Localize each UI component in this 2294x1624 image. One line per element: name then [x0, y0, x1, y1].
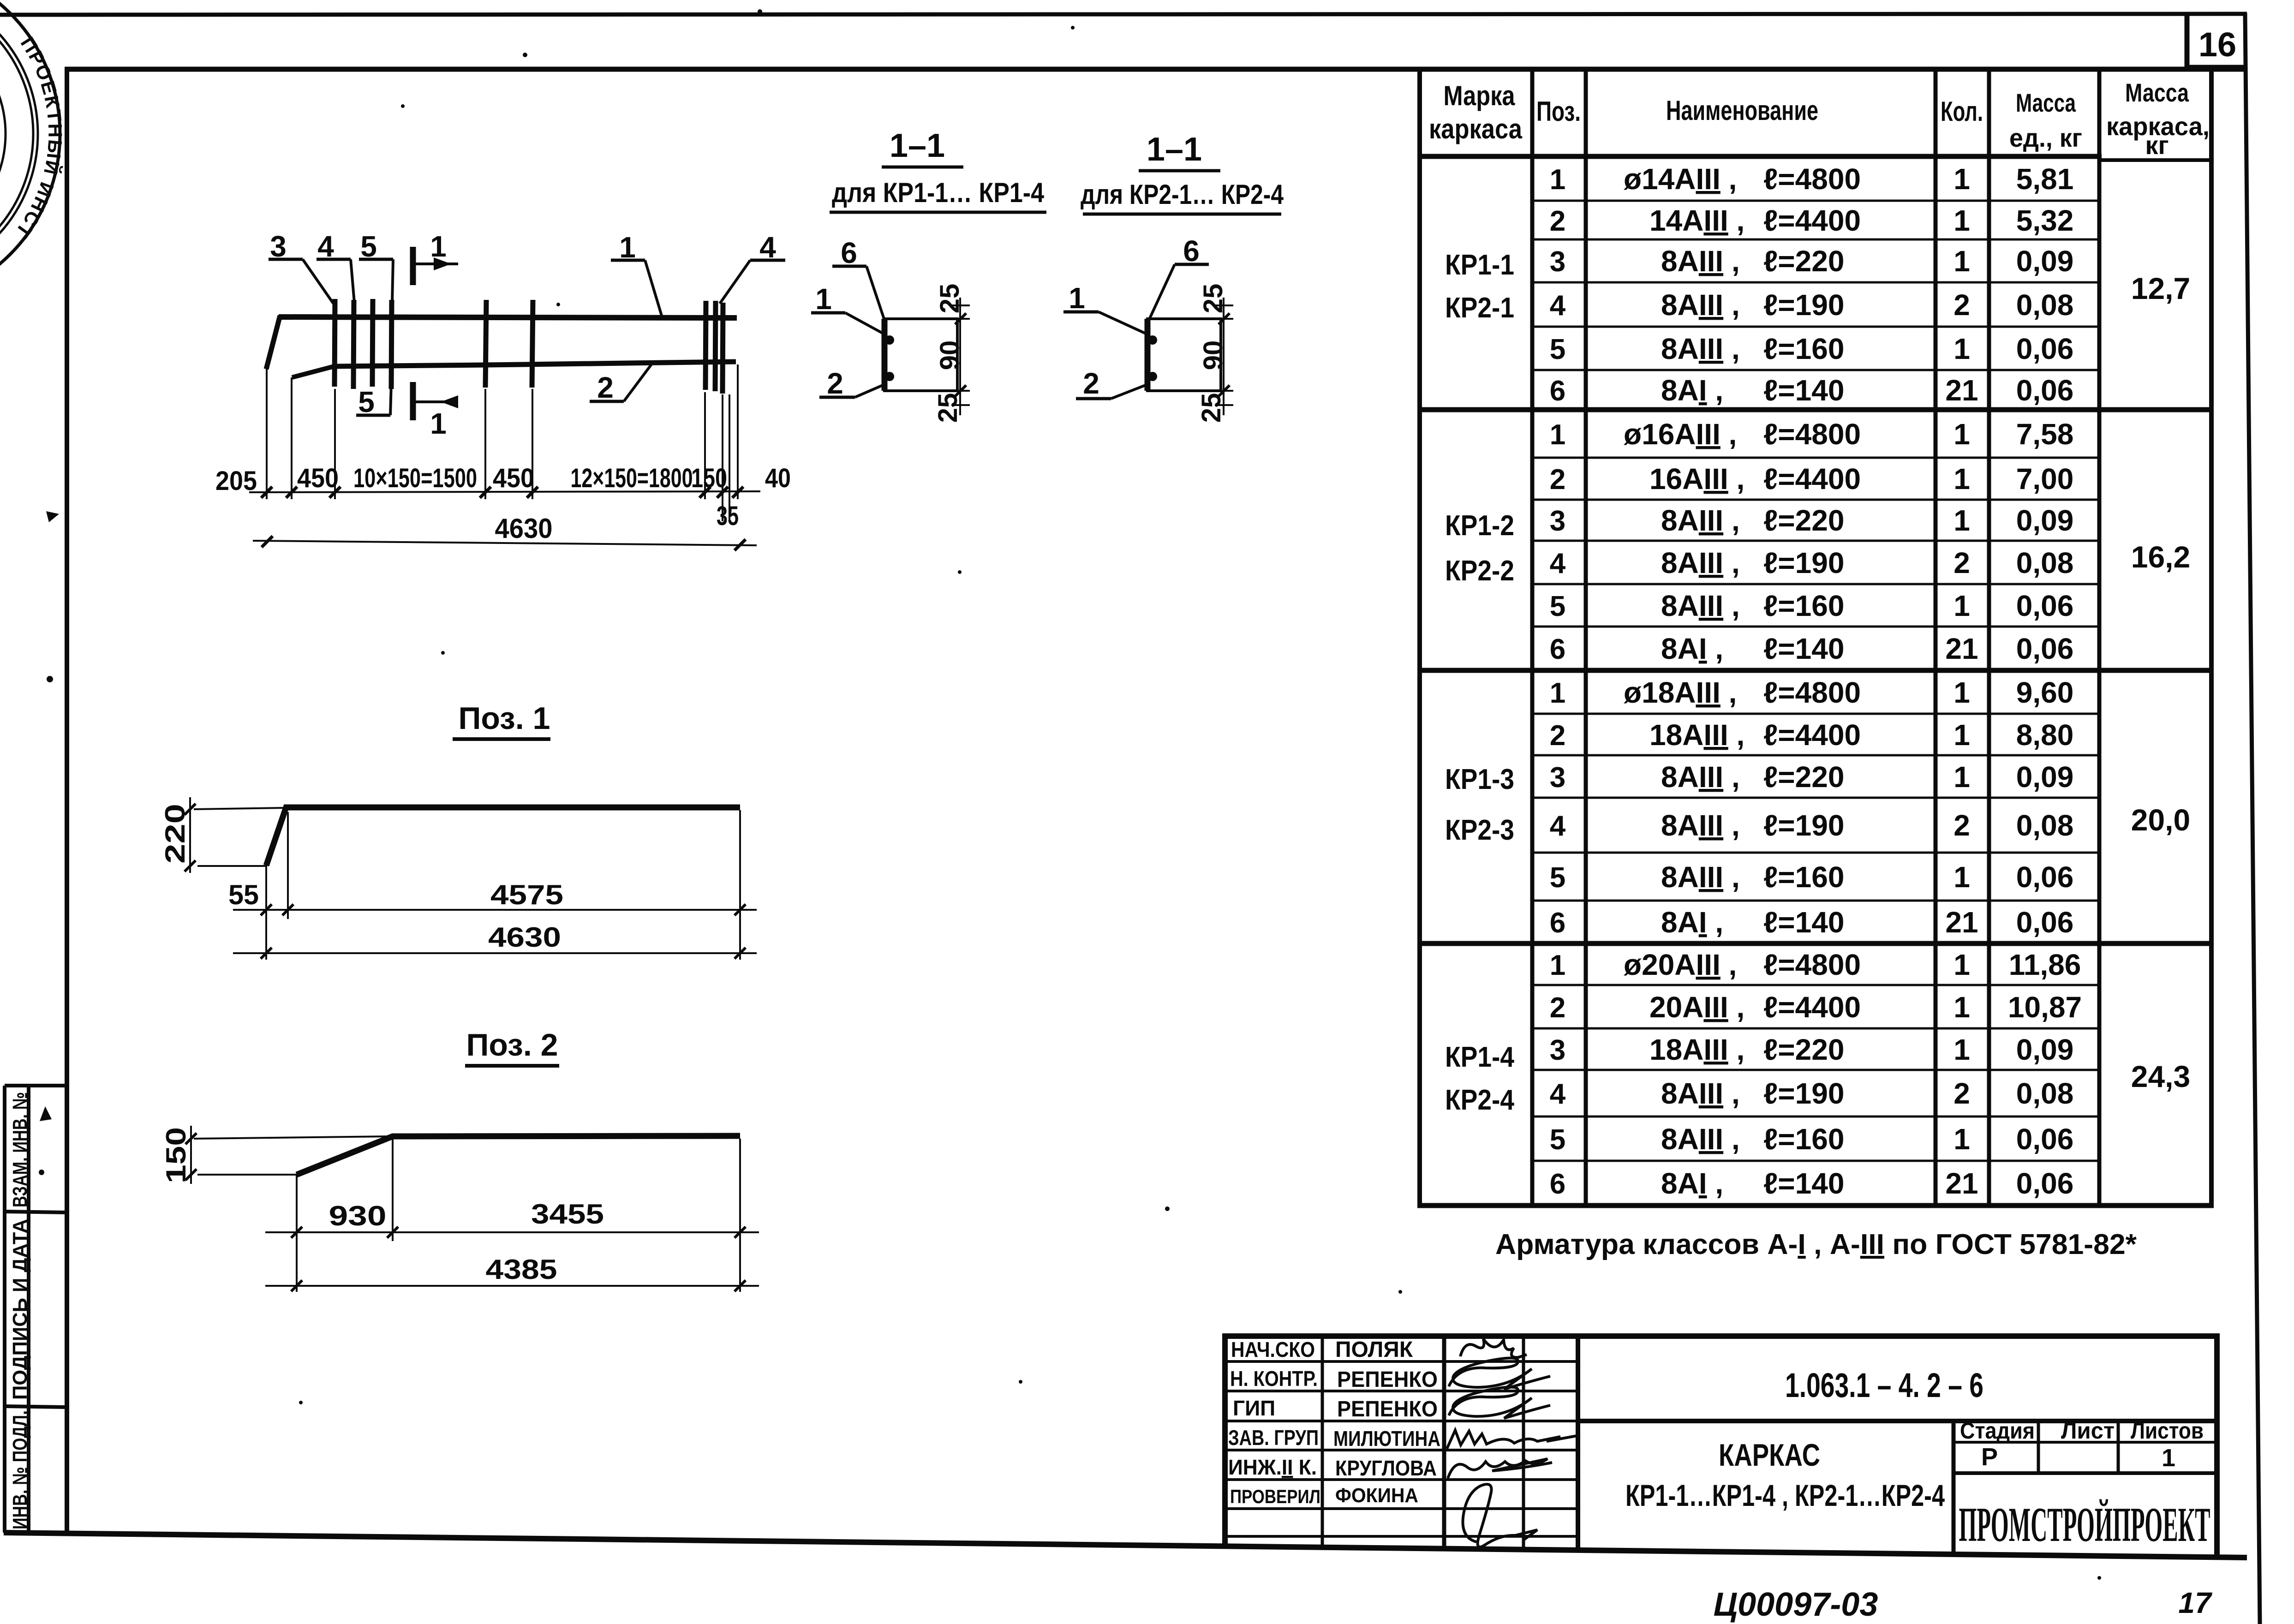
- leader label 2: [590, 363, 652, 404]
- svg-text:Ц00097-03: Ц00097-03: [1714, 1586, 1878, 1623]
- section title 1-1 left: [882, 127, 963, 167]
- svg-text:1: 1: [1953, 504, 1970, 537]
- svg-text:КР1-1…КР1-4 , КР2-1…КР2-4: КР1-1…КР1-4 , КР2-1…КР2-4: [1625, 1478, 1945, 1512]
- svg-text:ФОКИНА: ФОКИНА: [1335, 1484, 1418, 1507]
- signature scribble Репенко 1: [1449, 1358, 1550, 1389]
- section subtitle for KP1-1...KP1-4: [830, 177, 1046, 212]
- svg-text:0,06: 0,06: [2016, 589, 2074, 622]
- svg-text:0,06: 0,06: [2016, 906, 2074, 939]
- svg-text:ℓ=190: ℓ=190: [1763, 546, 1844, 579]
- svg-text:1.063.1 – 4. 2 – 6: 1.063.1 – 4. 2 – 6: [1785, 1366, 1983, 1404]
- title block outline: [1225, 1333, 2217, 1558]
- svg-text:450: 450: [297, 463, 339, 493]
- svg-text:12,7: 12,7: [2131, 271, 2190, 305]
- svg-text:8АIII ,: 8АIII ,: [1661, 245, 1740, 278]
- svg-text:0,06: 0,06: [2016, 860, 2074, 894]
- svg-text:1: 1: [1550, 949, 1565, 981]
- pos.2 dim line 4385: [265, 1285, 759, 1287]
- svg-text:ПРОВЕРИЛ: ПРОВЕРИЛ: [1230, 1486, 1320, 1507]
- svg-text:4630: 4630: [488, 922, 561, 953]
- svg-text:КАРКАС: КАРКАС: [1719, 1438, 1820, 1473]
- svg-text:205: 205: [215, 466, 257, 496]
- svg-text:Поз.: Поз.: [1536, 96, 1581, 127]
- pos.1 dim line 4630: [233, 952, 757, 954]
- svg-text:0,06: 0,06: [2016, 332, 2074, 365]
- svg-text:Поз. 1: Поз. 1: [459, 701, 550, 736]
- svg-text:17: 17: [2178, 1586, 2213, 1619]
- stirrup ticks middle: [485, 300, 533, 388]
- svg-text:25: 25: [1198, 284, 1228, 314]
- section KP1 dimension chain: [951, 298, 970, 415]
- svg-text:Марка: Марка: [1444, 80, 1516, 111]
- svg-text:ø18АIII ,: ø18АIII ,: [1624, 676, 1737, 709]
- svg-text:Кол.: Кол.: [1941, 96, 1983, 127]
- svg-text:2: 2: [1083, 367, 1099, 400]
- svg-text:4: 4: [1550, 548, 1566, 579]
- svg-text:1: 1: [1953, 332, 1970, 365]
- svg-text:4630: 4630: [495, 513, 553, 544]
- leader label 5 upper: [359, 230, 393, 302]
- svg-text:ед., кг: ед., кг: [2009, 123, 2082, 152]
- svg-text:1: 1: [430, 230, 447, 263]
- svg-text:21: 21: [1945, 906, 1978, 939]
- svg-text:8АIII ,: 8АIII ,: [1661, 760, 1740, 794]
- svg-text:ℓ=4400: ℓ=4400: [1763, 718, 1861, 752]
- svg-text:8АIII ,: 8АIII ,: [1661, 546, 1740, 579]
- svg-text:0,06: 0,06: [2016, 1167, 2074, 1200]
- section KP2 dimension chain: [1215, 298, 1233, 415]
- left stamp strip boxes: [5, 1086, 67, 1533]
- table row lines: [1532, 201, 2099, 1161]
- svg-text:КР2-4: КР2-4: [1445, 1084, 1514, 1116]
- svg-text:5: 5: [1550, 862, 1565, 894]
- svg-text:1: 1: [1953, 1122, 1970, 1156]
- pos.1 extension left bottom: [197, 865, 267, 867]
- svg-text:МИЛЮТИНА: МИЛЮТИНА: [1333, 1427, 1440, 1451]
- svg-text:ℓ=160: ℓ=160: [1763, 1122, 1844, 1156]
- svg-text:8,80: 8,80: [2016, 718, 2074, 752]
- bar 2 bottom chord: [335, 362, 736, 366]
- section box KP2 (stirrup outline): [1147, 319, 1221, 391]
- svg-text:1–1: 1–1: [890, 127, 945, 164]
- svg-text:2: 2: [1953, 288, 1970, 322]
- leader 6 left section: [832, 236, 884, 320]
- svg-text:ЗАВ. ГРУП: ЗАВ. ГРУП: [1228, 1426, 1319, 1450]
- svg-text:24,3: 24,3: [2131, 1059, 2190, 1093]
- section mark 1 upper: [413, 230, 458, 285]
- svg-text:11,86: 11,86: [2009, 948, 2081, 981]
- svg-text:5: 5: [358, 385, 375, 418]
- svg-text:12×150=1800: 12×150=1800: [571, 463, 693, 493]
- svg-text:8АIII ,: 8АIII ,: [1661, 1122, 1740, 1156]
- svg-text:РЕПЕНКО: РЕПЕНКО: [1337, 1397, 1438, 1421]
- svg-text:ø14АIII ,: ø14АIII ,: [1624, 162, 1737, 196]
- table column lines: [1420, 70, 2211, 1206]
- leader label 5 lower: [356, 366, 392, 418]
- outer sheet border top: [0, 14, 2247, 15]
- svg-text:ℓ=160: ℓ=160: [1763, 860, 1844, 894]
- svg-text:ℓ=4800: ℓ=4800: [1763, 162, 1861, 196]
- svg-text:1: 1: [1953, 676, 1970, 709]
- svg-text:6: 6: [1183, 234, 1200, 268]
- svg-text:21: 21: [1945, 1167, 1978, 1200]
- svg-text:21: 21: [1945, 374, 1978, 407]
- svg-text:ℓ=4400: ℓ=4400: [1763, 991, 1861, 1024]
- svg-text:КР1-4: КР1-4: [1445, 1041, 1514, 1073]
- svg-text:Лист: Лист: [2061, 1418, 2115, 1444]
- svg-text:2: 2: [1953, 1077, 1970, 1110]
- svg-text:1: 1: [1953, 462, 1970, 496]
- svg-text:Поз. 2: Поз. 2: [466, 1027, 558, 1063]
- svg-text:1: 1: [1953, 948, 1970, 981]
- signature scribble Круглова: [1448, 1459, 1552, 1478]
- svg-text:25: 25: [1196, 393, 1226, 423]
- svg-text:КР2-3: КР2-3: [1445, 814, 1514, 846]
- svg-text:Стадия: Стадия: [1960, 1418, 2035, 1444]
- pos.1 extension left top: [194, 808, 284, 809]
- svg-text:8АIII ,: 8АIII ,: [1661, 504, 1740, 537]
- bar 2 dot section KP2: [1148, 372, 1157, 381]
- svg-text:КР1-3: КР1-3: [1445, 764, 1514, 795]
- svg-text:0,06: 0,06: [2016, 374, 2074, 407]
- bar 1 left hook bend: [266, 316, 280, 369]
- svg-text:7,00: 7,00: [2016, 462, 2074, 496]
- svg-text:4: 4: [1550, 810, 1566, 842]
- svg-text:3455: 3455: [531, 1199, 604, 1230]
- svg-text:Н. КОНТР.: Н. КОНТР.: [1230, 1367, 1318, 1391]
- svg-text:ПОЛЯК: ПОЛЯК: [1335, 1337, 1413, 1362]
- svg-text:18АIII ,: 18АIII ,: [1649, 1033, 1744, 1066]
- svg-text:4: 4: [1550, 1078, 1566, 1110]
- svg-text:3: 3: [1550, 1034, 1565, 1066]
- signature scribble Поляк: [1460, 1339, 1527, 1357]
- svg-text:10,87: 10,87: [2008, 991, 2082, 1024]
- svg-text:5: 5: [1550, 334, 1565, 365]
- svg-text:0,09: 0,09: [2016, 760, 2074, 794]
- svg-text:ℓ=160: ℓ=160: [1763, 589, 1844, 622]
- svg-text:8АI ,: 8АI ,: [1661, 1167, 1723, 1200]
- svg-text:1–1: 1–1: [1147, 131, 1202, 168]
- bar 1 dot section KP2: [1148, 335, 1157, 345]
- svg-text:8АIII ,: 8АIII ,: [1661, 1077, 1740, 1110]
- svg-text:ГИП: ГИП: [1233, 1396, 1275, 1420]
- svg-text:3: 3: [1550, 505, 1565, 537]
- svg-text:ℓ=4400: ℓ=4400: [1763, 462, 1861, 496]
- pos.1 extension verticals for lower dims: [266, 810, 740, 960]
- svg-text:35: 35: [717, 501, 739, 531]
- svg-text:4575: 4575: [490, 879, 563, 910]
- svg-text:КР2-2: КР2-2: [1445, 555, 1514, 587]
- left margin dot: [47, 676, 53, 682]
- svg-text:ПОДПИСЬ И ДАТА: ПОДПИСЬ И ДАТА: [9, 1219, 31, 1400]
- svg-text:каркаса: каркаса: [1429, 113, 1523, 144]
- section mark 1 lower: [413, 382, 458, 440]
- svg-text:Масса: Масса: [2125, 78, 2189, 107]
- title block personnel row lines: [1225, 1361, 1578, 1536]
- svg-text:для КР1-1… КР1-4: для КР1-1… КР1-4: [832, 177, 1045, 208]
- svg-text:1: 1: [1953, 1033, 1970, 1066]
- svg-text:Листов: Листов: [2131, 1418, 2204, 1444]
- left margin marker triangle upper: [46, 511, 59, 522]
- svg-text:6: 6: [1550, 375, 1565, 407]
- pos.2 extension left bottom: [197, 1174, 298, 1176]
- pos.1 title: [453, 701, 550, 739]
- svg-text:1: 1: [1069, 281, 1085, 315]
- dimension line row 1: [249, 491, 760, 492]
- svg-text:8АI ,: 8АI ,: [1661, 374, 1723, 407]
- svg-text:кг: кг: [2145, 131, 2169, 160]
- svg-text:6: 6: [1550, 907, 1565, 939]
- pos.2 dim 150 vertical: [190, 1126, 192, 1184]
- svg-text:8АI ,: 8АI ,: [1661, 906, 1723, 939]
- svg-text:3: 3: [1550, 246, 1565, 278]
- svg-text:8АIII ,: 8АIII ,: [1661, 589, 1740, 622]
- svg-text:8АIII ,: 8АIII ,: [1661, 860, 1740, 894]
- pos.2 dim line 930/3455: [265, 1231, 759, 1233]
- section box KP1 (stirrup outline): [884, 319, 957, 391]
- svg-text:2: 2: [1550, 992, 1565, 1024]
- svg-text:8АIII ,: 8АIII ,: [1661, 809, 1740, 842]
- svg-text:КРУГЛОВА: КРУГЛОВА: [1335, 1456, 1437, 1480]
- svg-text:9,60: 9,60: [2016, 676, 2074, 709]
- svg-text:1: 1: [1953, 162, 1970, 196]
- svg-text:1: 1: [2162, 1444, 2175, 1472]
- svg-text:ИНЖ.II К.: ИНЖ.II К.: [1228, 1455, 1317, 1479]
- svg-text:5,32: 5,32: [2016, 204, 2074, 237]
- svg-text:1: 1: [1953, 860, 1970, 894]
- outer sheet border right: [2245, 13, 2260, 1624]
- pos.2 bar body: [297, 1136, 740, 1175]
- corner stamp arcs (projekt institute seal, partially visible): [0, 0, 60, 304]
- svg-text:220: 220: [160, 804, 191, 864]
- svg-text:16АIII ,: 16АIII ,: [1649, 462, 1744, 496]
- svg-text:КР1-2: КР1-2: [1445, 510, 1514, 542]
- pos.2 extension left top: [194, 1136, 391, 1139]
- svg-text:2: 2: [827, 367, 843, 400]
- sheet number box top right: [2187, 14, 2246, 68]
- svg-text:4: 4: [1550, 290, 1566, 322]
- svg-text:1: 1: [1550, 419, 1565, 451]
- svg-text:8АIII ,: 8АIII ,: [1661, 288, 1740, 322]
- svg-text:1: 1: [815, 282, 832, 316]
- leader label 4 right: [720, 231, 785, 304]
- svg-text:3: 3: [1550, 762, 1565, 794]
- pos.1 bar body: [266, 807, 740, 866]
- svg-text:0,06: 0,06: [2016, 1122, 2074, 1156]
- svg-text:ПРОМСТРОЙПРОЕКТ: ПРОМСТРОЙПРОЕКТ: [1959, 1498, 2210, 1552]
- svg-text:ø20АIII ,: ø20АIII ,: [1624, 948, 1737, 981]
- svg-text:1: 1: [1953, 760, 1970, 794]
- stirrup ticks group left: [335, 299, 392, 389]
- svg-text:5: 5: [1550, 1124, 1565, 1156]
- svg-text:ℓ=140: ℓ=140: [1763, 906, 1844, 939]
- svg-text:20АIII ,: 20АIII ,: [1649, 991, 1744, 1024]
- bar 2 left hook bend: [292, 366, 336, 377]
- leader 1 right section: [1063, 281, 1149, 335]
- svg-text:ℓ=220: ℓ=220: [1763, 245, 1844, 278]
- svg-text:2: 2: [1550, 720, 1565, 752]
- svg-text:2: 2: [1550, 205, 1565, 237]
- svg-text:5,81: 5,81: [2016, 162, 2074, 196]
- svg-text:7,58: 7,58: [2016, 418, 2074, 451]
- svg-text:450: 450: [493, 463, 534, 493]
- svg-text:4385: 4385: [486, 1254, 557, 1285]
- svg-text:25: 25: [935, 284, 965, 314]
- svg-text:1: 1: [1953, 245, 1970, 278]
- left strip marker dot: [39, 1170, 44, 1175]
- svg-text:ℓ=190: ℓ=190: [1763, 288, 1844, 322]
- svg-text:для КР2-1… КР2-4: для КР2-1… КР2-4: [1081, 179, 1284, 210]
- svg-text:10×150=1500: 10×150=1500: [353, 463, 477, 493]
- svg-text:ℓ=220: ℓ=220: [1763, 504, 1844, 537]
- svg-text:6: 6: [1550, 1168, 1565, 1200]
- svg-text:0,09: 0,09: [2016, 245, 2074, 278]
- svg-text:0,08: 0,08: [2016, 1077, 2074, 1110]
- svg-text:0,08: 0,08: [2016, 809, 2074, 842]
- svg-text:2: 2: [1550, 464, 1565, 496]
- svg-text:25: 25: [933, 393, 963, 423]
- svg-text:0,08: 0,08: [2016, 546, 2074, 579]
- svg-text:Наименование: Наименование: [1666, 95, 1818, 126]
- pos.2 extension verticals: [297, 1139, 740, 1292]
- svg-text:0,06: 0,06: [2016, 632, 2074, 665]
- svg-text:РЕПЕНКО: РЕПЕНКО: [1337, 1367, 1438, 1392]
- svg-text:ℓ=220: ℓ=220: [1763, 1033, 1844, 1066]
- svg-text:Р: Р: [1981, 1443, 1998, 1471]
- dimension ticks row 1: [261, 487, 743, 498]
- svg-text:Арматура классов А-I , А-III: Арматура классов А-I , А-III по ГОСТ 578…: [1495, 1229, 2137, 1260]
- left strip marker triangle: [40, 1106, 52, 1121]
- svg-text:ℓ=160: ℓ=160: [1763, 332, 1844, 365]
- svg-text:5: 5: [1550, 591, 1565, 622]
- stirrup ticks right pair: [705, 301, 723, 394]
- svg-text:40: 40: [765, 463, 791, 493]
- svg-text:1: 1: [1953, 204, 1970, 237]
- svg-text:1: 1: [1550, 164, 1565, 196]
- svg-text:ℓ=4800: ℓ=4800: [1763, 418, 1861, 451]
- svg-text:2: 2: [597, 371, 614, 404]
- svg-text:14АIII ,: 14АIII ,: [1649, 204, 1744, 237]
- pos.2 title: [465, 1027, 559, 1066]
- svg-text:6: 6: [841, 236, 857, 269]
- svg-text:ИНВ. № ПОДЛ.: ИНВ. № ПОДЛ.: [9, 1410, 31, 1529]
- svg-text:0,09: 0,09: [2016, 504, 2074, 537]
- bar 1 top chord: [279, 317, 737, 318]
- leader label 1 right: [611, 231, 662, 316]
- svg-text:ℓ=4400: ℓ=4400: [1763, 204, 1861, 237]
- svg-text:6: 6: [1550, 633, 1565, 665]
- svg-text:21: 21: [1945, 632, 1978, 665]
- svg-text:150: 150: [161, 1127, 191, 1183]
- bar 1 dot section KP1: [885, 335, 894, 345]
- leader 2 right section: [1076, 367, 1149, 400]
- svg-text:1: 1: [1953, 991, 1970, 1024]
- svg-text:ℓ=4800: ℓ=4800: [1763, 676, 1861, 709]
- svg-text:18АIII ,: 18АIII ,: [1649, 718, 1744, 752]
- pos.1 dim 220 vertical: [189, 797, 191, 873]
- svg-text:16,2: 16,2: [2131, 540, 2190, 574]
- section subtitle for KP2-1...KP2-4: [1081, 179, 1284, 214]
- svg-text:930: 930: [329, 1200, 387, 1231]
- svg-text:ℓ=140: ℓ=140: [1763, 632, 1844, 665]
- photocopy specks: [299, 9, 2101, 1580]
- table group divider lines: [1417, 156, 2214, 1206]
- svg-text:8АIII ,: 8АIII ,: [1661, 332, 1740, 365]
- leader label 4: [317, 230, 354, 303]
- svg-text:Масса: Масса: [2016, 88, 2076, 117]
- bar 2 dot section KP1: [885, 372, 894, 381]
- svg-text:1: 1: [1953, 589, 1970, 622]
- svg-text:16: 16: [2198, 25, 2236, 64]
- leader 6 right section: [1149, 234, 1209, 320]
- title block right area dividers: [1578, 1421, 2217, 1554]
- svg-text:1: 1: [1953, 718, 1970, 752]
- svg-text:1: 1: [1953, 418, 1970, 451]
- signature scribble Милютина: [1447, 1430, 1577, 1449]
- dimension line row 2 (4630): [253, 541, 757, 545]
- pos.1 dim line 4575/55: [233, 909, 757, 911]
- svg-text:8АI ,: 8АI ,: [1661, 632, 1723, 665]
- svg-text:ℓ=190: ℓ=190: [1763, 809, 1844, 842]
- svg-text:1: 1: [1550, 677, 1565, 709]
- extension lines down to dimension line: [267, 364, 738, 521]
- leader 2 left section: [819, 367, 886, 400]
- svg-text:НАЧ.СКО: НАЧ.СКО: [1231, 1337, 1315, 1361]
- svg-text:ВЗАМ. ИНВ. №: ВЗАМ. ИНВ. №: [9, 1092, 31, 1207]
- svg-text:КР1-1: КР1-1: [1445, 249, 1514, 281]
- svg-text:ℓ=190: ℓ=190: [1763, 1077, 1844, 1110]
- svg-text:0,08: 0,08: [2016, 288, 2074, 322]
- svg-text:ℓ=4800: ℓ=4800: [1763, 948, 1861, 981]
- leader 1 left section: [811, 282, 886, 335]
- svg-text:90: 90: [935, 340, 965, 370]
- leader label 3: [269, 230, 334, 304]
- svg-text:2: 2: [1953, 546, 1970, 579]
- svg-text:2: 2: [1953, 809, 1970, 842]
- signature scribble Фокина: [1463, 1484, 1537, 1547]
- svg-text:ø16АIII ,: ø16АIII ,: [1624, 418, 1737, 451]
- svg-text:КР2-1: КР2-1: [1445, 292, 1514, 324]
- svg-text:1: 1: [430, 407, 447, 440]
- svg-text:55: 55: [228, 879, 259, 910]
- svg-text:20,0: 20,0: [2131, 803, 2190, 837]
- svg-text:ℓ=140: ℓ=140: [1763, 1167, 1844, 1200]
- svg-text:ℓ=140: ℓ=140: [1763, 374, 1844, 407]
- signature scribble Репенко 2: [1449, 1387, 1550, 1418]
- svg-text:150: 150: [691, 463, 727, 493]
- svg-text:90: 90: [1198, 340, 1228, 370]
- svg-text:ℓ=220: ℓ=220: [1763, 760, 1844, 794]
- section title 1-1 right: [1139, 131, 1220, 171]
- svg-text:0,09: 0,09: [2016, 1033, 2074, 1066]
